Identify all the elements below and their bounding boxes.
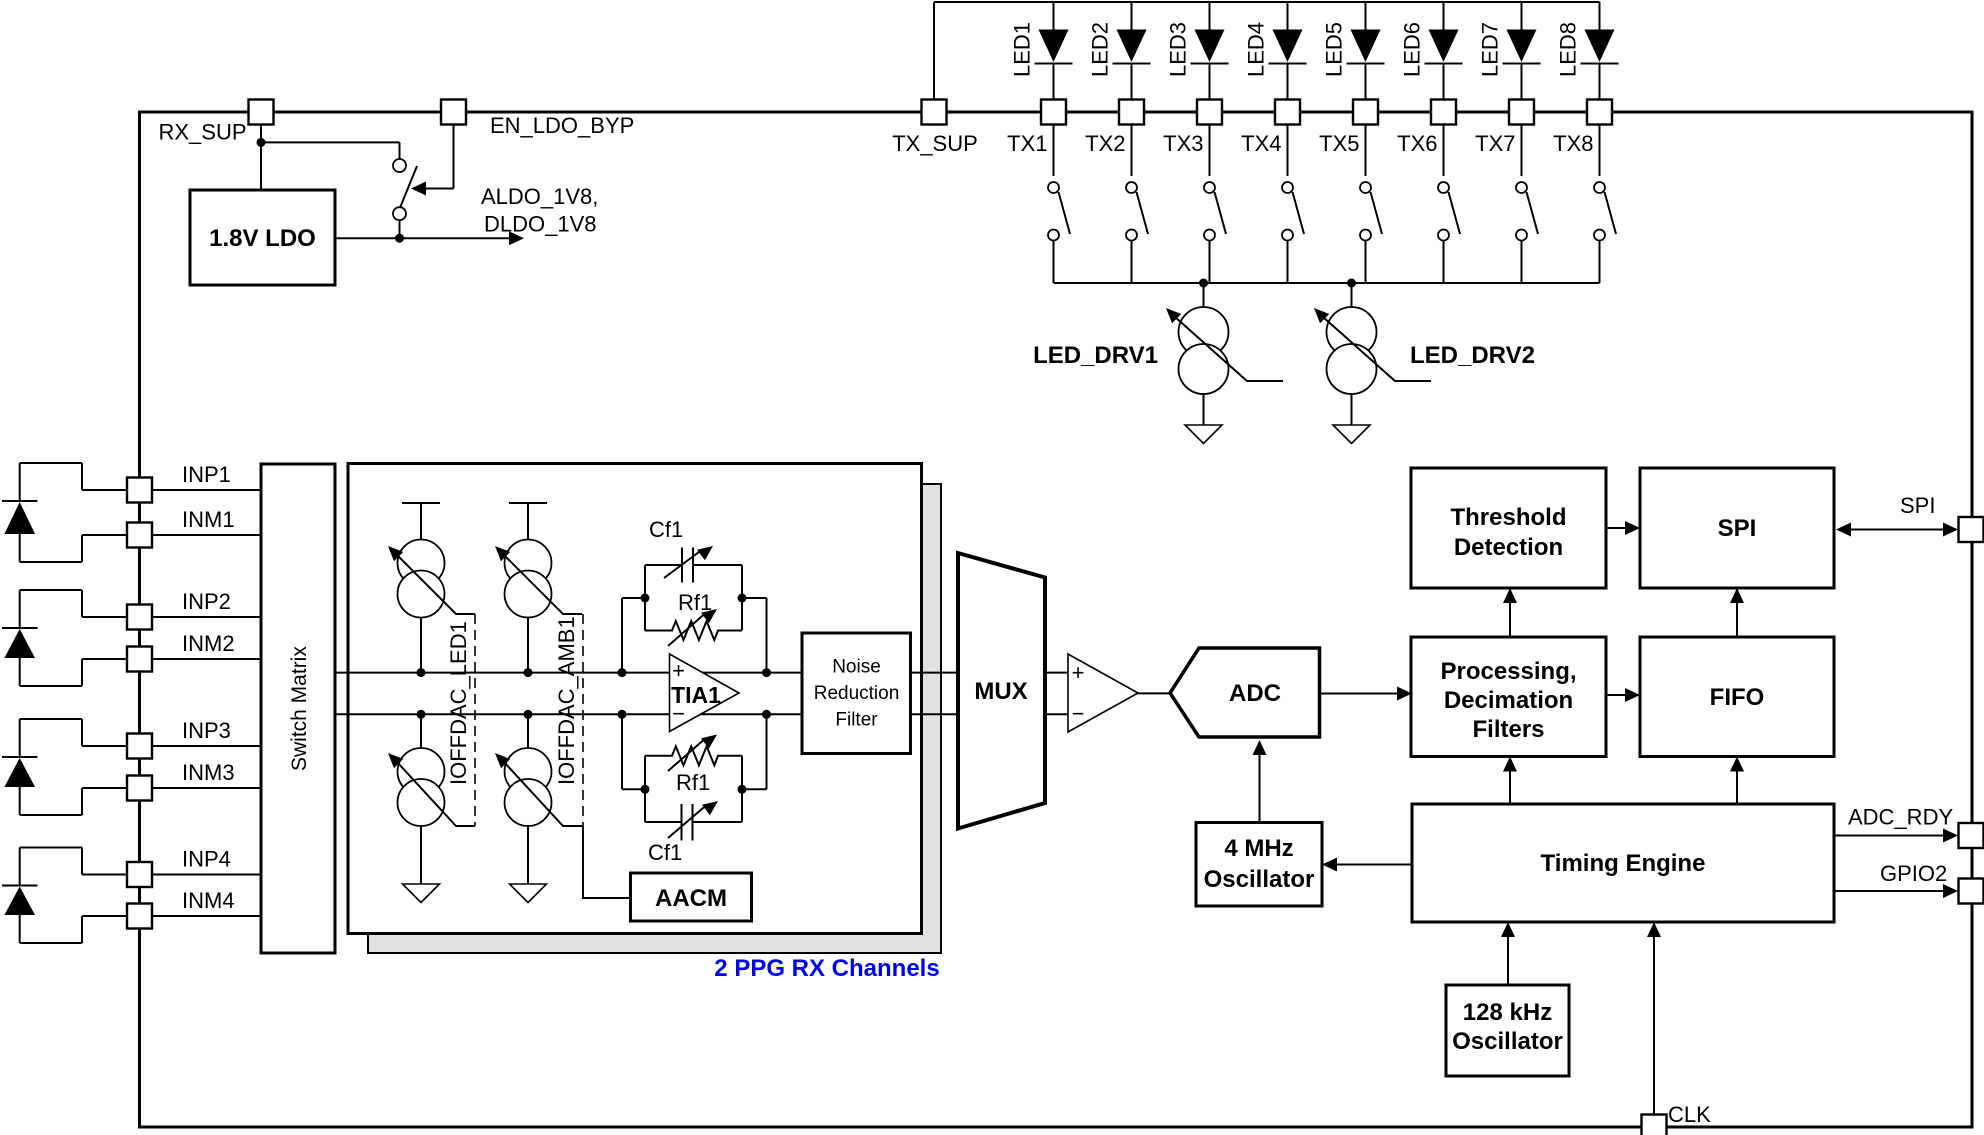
current source LED_DRV1 <box>1033 283 1283 425</box>
photodiode PD1 <box>2 463 127 562</box>
block Processing Decimation Filters <box>1411 637 1606 757</box>
svg-text:LED4: LED4 <box>1244 22 1269 77</box>
block Timing Engine <box>1412 804 1834 922</box>
svg-text:4 MHz: 4 MHz <box>1224 835 1293 862</box>
PPG channel box <box>348 464 922 934</box>
capacitor Cf1 upper <box>645 517 742 583</box>
svg-text:2 PPG RX Channels: 2 PPG RX Channels <box>714 955 939 982</box>
wire CLK to Timing <box>1647 922 1661 1114</box>
svg-text:SPI: SPI <box>1718 515 1757 542</box>
svg-text:INM1: INM1 <box>182 507 235 532</box>
svg-text:TX6: TX6 <box>1397 131 1437 156</box>
svg-text:LED_DRV2: LED_DRV2 <box>1410 342 1535 369</box>
svg-text:Oscillator: Oscillator <box>1452 1028 1563 1055</box>
net ALDO_1V8 DLDO_1V8 <box>481 184 598 237</box>
svg-text:TX5: TX5 <box>1319 131 1359 156</box>
LED5 diode <box>1322 2 1385 100</box>
pin RX_SUP <box>159 100 274 145</box>
svg-text:ADC_RDY: ADC_RDY <box>1848 805 1953 830</box>
LED6 diode <box>1400 2 1463 100</box>
svg-text:+: + <box>1072 660 1085 685</box>
wire Processing to FIFO <box>1606 688 1640 702</box>
buffer amplifier <box>1068 654 1138 732</box>
PPG channel box shadow <box>368 484 941 953</box>
svg-text:Filters: Filters <box>1472 716 1544 743</box>
svg-text:LED1: LED1 <box>1010 22 1035 77</box>
wire ADC_RDY <box>1834 805 1958 843</box>
svg-text:Decimation: Decimation <box>1444 687 1573 714</box>
wire MUX to buffer <box>1045 673 1068 715</box>
svg-text:TIA1: TIA1 <box>671 682 721 708</box>
resistor Rf1 upper <box>645 590 742 646</box>
photodiode PD3 <box>2 719 127 815</box>
svg-text:LED7: LED7 <box>1478 22 1503 77</box>
wire TIA positive line <box>335 672 802 674</box>
oscillator 128 kHz <box>1446 985 1569 1076</box>
svg-text:IOFFDAC_AMB1: IOFFDAC_AMB1 <box>554 616 579 785</box>
wire INM4 to switch matrix <box>152 915 261 917</box>
pin INM2 <box>127 631 235 672</box>
wire buffer to ADC <box>1138 692 1170 694</box>
svg-text:GPIO2: GPIO2 <box>1880 861 1947 886</box>
switch matrix <box>261 464 335 953</box>
pin GPIO2 <box>1959 879 1984 904</box>
switch TX4 <box>1282 125 1304 283</box>
switch TX7 <box>1516 125 1538 283</box>
wire Timing to Processing <box>1503 757 1517 805</box>
pin ADC_RDY <box>1959 823 1984 848</box>
wire Processing to Threshold <box>1503 588 1517 637</box>
LED2 diode <box>1088 2 1151 100</box>
wire AACM control <box>583 826 631 898</box>
svg-text:INP3: INP3 <box>182 718 231 743</box>
svg-text:INP2: INP2 <box>182 589 231 614</box>
block Threshold Detection <box>1411 468 1606 588</box>
svg-text:CLK: CLK <box>1668 1102 1711 1127</box>
svg-text:Rf1: Rf1 <box>678 590 712 615</box>
current source IOFFDAC_AMB1 lower with ground <box>495 710 582 903</box>
pin INM3 <box>127 760 235 801</box>
svg-text:IOFFDAC_LED1: IOFFDAC_LED1 <box>446 621 471 785</box>
current source IOFFDAC_LED1 lower with ground <box>388 710 475 903</box>
wire upper feedback loop <box>618 565 772 677</box>
wire GPIO2 <box>1834 861 1958 898</box>
current source IOFFDAC_AMB1 upper <box>495 503 582 677</box>
photodiode PD2 <box>2 590 127 686</box>
svg-text:TX1: TX1 <box>1007 131 1047 156</box>
svg-text:Cf1: Cf1 <box>649 517 683 542</box>
regulator 1.8V LDO <box>190 190 335 285</box>
svg-text:LED_DRV1: LED_DRV1 <box>1033 342 1158 369</box>
switch TX3 <box>1204 125 1226 283</box>
LED1 diode <box>1010 2 1073 100</box>
pin SPI <box>1959 517 1984 542</box>
wire EN_LDO_BYP control arrow <box>411 125 454 196</box>
pin INP2 <box>127 589 231 630</box>
svg-text:1.8V LDO: 1.8V LDO <box>209 225 316 252</box>
svg-text:LED3: LED3 <box>1166 22 1191 77</box>
wire FIFO to SPI <box>1730 588 1744 637</box>
pin EN_LDO_BYP <box>441 100 634 139</box>
pin INP1 <box>127 462 231 503</box>
wire INM2 to switch matrix <box>152 658 261 660</box>
svg-text:AACM: AACM <box>655 885 727 912</box>
svg-text:−: − <box>1072 701 1085 726</box>
svg-text:Threshold: Threshold <box>1450 504 1566 531</box>
pin TX7 <box>1475 100 1534 157</box>
mux MUX <box>958 553 1045 829</box>
wire ADC to Processing <box>1320 687 1413 701</box>
pin TX6 <box>1397 100 1456 157</box>
svg-text:EN_LDO_BYP: EN_LDO_BYP <box>490 113 634 138</box>
wire Timing to FIFO <box>1730 757 1744 805</box>
wire SPI bus <box>1836 493 1958 537</box>
wire lower feedback loop <box>618 710 772 822</box>
svg-text:INM4: INM4 <box>182 888 235 913</box>
svg-text:+: + <box>672 658 685 683</box>
LED4 diode <box>1244 2 1307 100</box>
svg-text:Reduction: Reduction <box>814 683 900 704</box>
svg-text:128 kHz: 128 kHz <box>1463 999 1552 1026</box>
photodiode PD4 <box>2 848 127 944</box>
node LED_DRV2 tap <box>1347 279 1356 288</box>
svg-text:TX4: TX4 <box>1241 131 1281 156</box>
control line IOFFDAC_LED1 <box>446 614 475 826</box>
svg-text:TX_SUP: TX_SUP <box>892 131 978 156</box>
pin TX1 <box>1007 100 1066 157</box>
op-amp TIA1 <box>670 654 740 732</box>
svg-text:TX8: TX8 <box>1553 131 1593 156</box>
wire NRF to MUX <box>911 673 959 715</box>
resistor Rf1 lower <box>645 735 742 796</box>
wire 4MHz to ADC <box>1253 740 1267 823</box>
block AACM <box>631 873 752 921</box>
svg-text:Noise: Noise <box>832 657 881 678</box>
svg-text:LED5: LED5 <box>1322 22 1347 77</box>
svg-text:Switch Matrix: Switch Matrix <box>288 646 311 771</box>
switch TX8 <box>1594 125 1616 283</box>
pin TX4 <box>1241 100 1300 157</box>
svg-text:ALDO_1V8,: ALDO_1V8, <box>481 184 598 209</box>
wire TX drive bus <box>1054 282 1600 284</box>
wire INM3 to switch matrix <box>152 787 261 789</box>
svg-text:Detection: Detection <box>1454 534 1563 561</box>
pin TX5 <box>1319 100 1378 157</box>
block SPI <box>1640 468 1834 588</box>
svg-text:INP1: INP1 <box>182 462 231 487</box>
svg-text:Processing,: Processing, <box>1440 658 1576 685</box>
pin TX2 <box>1085 100 1144 157</box>
ground below LED_DRV1 <box>1185 425 1222 444</box>
pin TX3 <box>1163 100 1222 157</box>
current source IOFFDAC_LED1 upper <box>388 503 475 677</box>
svg-text:Oscillator: Oscillator <box>1204 866 1315 893</box>
pin INM1 <box>127 507 235 548</box>
wire INM1 to switch matrix <box>152 534 261 536</box>
svg-text:INM2: INM2 <box>182 631 235 656</box>
LED7 diode <box>1478 2 1541 100</box>
wire INP1 to switch matrix <box>152 489 261 491</box>
svg-text:MUX: MUX <box>974 678 1027 705</box>
wire RX_SUP to LDO and switch <box>257 125 400 238</box>
adc ADC <box>1170 648 1320 737</box>
block Noise Reduction Filter <box>802 633 911 754</box>
node ALDO output junction <box>335 231 524 245</box>
svg-text:INM3: INM3 <box>182 760 235 785</box>
LED8 diode <box>1556 2 1619 100</box>
svg-text:TX2: TX2 <box>1085 131 1125 156</box>
pin CLK <box>1642 1102 1712 1135</box>
node LED_DRV1 tap <box>1199 279 1208 288</box>
svg-text:Filter: Filter <box>835 710 878 731</box>
wire INP4 to switch matrix <box>152 874 261 876</box>
wire TIA negative line <box>335 713 802 715</box>
pin INM4 <box>127 888 235 929</box>
svg-text:Rf1: Rf1 <box>676 770 710 795</box>
switch TX6 <box>1438 125 1460 283</box>
oscillator 4 MHz <box>1196 823 1322 907</box>
svg-text:TX3: TX3 <box>1163 131 1203 156</box>
wire Timing Engine to 4MHz <box>1322 858 1412 872</box>
wire INP2 to switch matrix <box>152 616 261 618</box>
wire INP3 to switch matrix <box>152 745 261 747</box>
wire Threshold to SPI <box>1606 521 1640 535</box>
wire TX_SUP top rail <box>934 2 1600 100</box>
svg-text:RX_SUP: RX_SUP <box>159 120 247 145</box>
ground below LED_DRV2 <box>1333 425 1370 444</box>
svg-text:Cf1: Cf1 <box>648 840 682 865</box>
svg-text:LED8: LED8 <box>1556 22 1581 77</box>
svg-text:INP4: INP4 <box>182 847 231 872</box>
control line IOFFDAC_AMB1 <box>554 614 583 826</box>
svg-text:ADC: ADC <box>1229 680 1281 707</box>
switch TX2 <box>1126 125 1148 283</box>
switch TX5 <box>1360 125 1382 283</box>
svg-text:SPI: SPI <box>1900 493 1935 518</box>
svg-text:FIFO: FIFO <box>1710 684 1765 711</box>
pin INP4 <box>127 847 231 888</box>
wire 128kHz to Timing <box>1501 922 1515 985</box>
svg-text:LED6: LED6 <box>1400 22 1425 77</box>
pin TX8 <box>1553 100 1612 157</box>
switch TX1 <box>1048 125 1070 283</box>
LED3 diode <box>1166 2 1229 100</box>
svg-text:Timing Engine: Timing Engine <box>1541 850 1706 877</box>
block FIFO <box>1640 637 1834 757</box>
pin TX_SUP <box>892 100 978 157</box>
capacitor Cf1 lower <box>645 801 742 865</box>
svg-text:LED2: LED2 <box>1088 22 1113 77</box>
current source LED_DRV2 <box>1314 283 1535 425</box>
svg-text:TX7: TX7 <box>1475 131 1515 156</box>
pin INP3 <box>127 718 231 759</box>
svg-text:DLDO_1V8: DLDO_1V8 <box>484 212 597 237</box>
switch LDO bypass <box>393 159 417 220</box>
